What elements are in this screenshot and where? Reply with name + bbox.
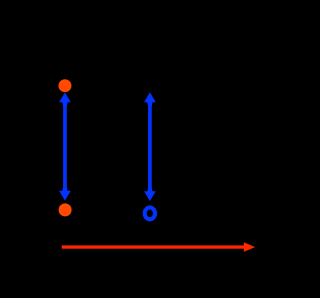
arrow horizontal (red, pointing right) bbox=[62, 242, 255, 252]
double arrow left (blue, vertical) bbox=[59, 92, 71, 200]
orange dot top (left arrow upper endpoint) bbox=[58, 79, 71, 92]
double arrow right (blue, vertical) bbox=[144, 92, 156, 201]
node O (blue ring marking origin at right arrow bottom) bbox=[145, 208, 155, 220]
orange dot bottom (left arrow lower endpoint) bbox=[59, 203, 72, 216]
